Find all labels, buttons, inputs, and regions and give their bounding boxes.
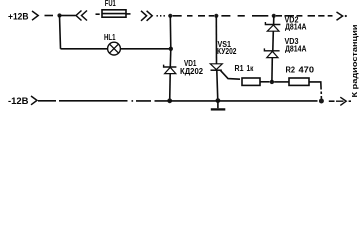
wire dotted <box>157 15 165 17</box>
connector pin +12V <box>32 11 38 20</box>
thyristor VS1 gate <box>221 71 240 80</box>
svg-text:КУ202: КУ202 <box>217 47 237 56</box>
svg-text:1к: 1к <box>247 64 255 73</box>
output arrow -12V to radio <box>336 97 346 105</box>
node C junction <box>169 47 173 51</box>
wire lamp branch right <box>120 48 170 50</box>
wire bottom rail mid <box>155 100 318 102</box>
zener VD2 triangle <box>267 25 279 31</box>
wire lamp branch left <box>61 48 108 50</box>
zener VD3 triangle <box>267 51 278 57</box>
svg-text:470: 470 <box>299 65 315 74</box>
node ground junction <box>216 98 221 103</box>
thyristor VS1 triangle <box>210 64 222 70</box>
diode VD1 triangle <box>165 67 176 73</box>
wire bottom rail left <box>38 100 128 102</box>
connector pin -12V <box>31 96 37 105</box>
fuse FU1 <box>102 10 126 17</box>
wire B down to C <box>169 16 172 49</box>
lamp HL1 <box>108 42 121 55</box>
wire <box>45 15 54 17</box>
wire <box>60 15 76 17</box>
svg-text:КД202: КД202 <box>180 67 204 76</box>
svg-text:R2: R2 <box>286 65 296 74</box>
node A junction <box>57 13 61 17</box>
svg-text:R1: R1 <box>235 64 244 73</box>
wire VD2 up to node E <box>273 16 275 25</box>
wire VD3 up to VD2 <box>272 31 275 51</box>
wire dashed top rail B to D <box>173 15 214 17</box>
thyristor VS1 cathode bar <box>211 69 222 71</box>
resistor R1 <box>242 78 260 85</box>
wire VS1 cathode down to ground node <box>217 70 218 101</box>
wire D down to VS1 <box>215 16 217 64</box>
node H junction <box>319 99 324 104</box>
output arrow +12V to radio <box>337 12 343 20</box>
node E junction (VD2 tap) <box>272 14 276 18</box>
svg-text:-12В: -12В <box>8 96 29 106</box>
svg-text:HL1: HL1 <box>104 33 116 42</box>
diode VD1 cathode bar <box>164 65 177 67</box>
svg-text:К радиостанции: К радиостанции <box>350 24 359 97</box>
wire VD1 down to node F <box>169 74 172 101</box>
svg-text:+12В: +12В <box>8 11 29 21</box>
resistor R2 <box>289 78 309 85</box>
zener VD3 cathode bar <box>264 48 279 50</box>
ground <box>217 101 219 108</box>
wire R2 to node H <box>309 82 321 99</box>
zener VD2 cathode bar <box>265 22 280 25</box>
wire R1 to node G <box>260 81 270 83</box>
wire A down to lamp branch <box>60 16 61 49</box>
node F junction <box>167 98 172 103</box>
node G junction <box>270 80 274 84</box>
wire dashed top rail D to E <box>221 15 268 17</box>
wire G up to VD3 <box>271 58 273 82</box>
wire dashed <box>96 13 100 15</box>
connector pair X1 (double chevron left) <box>76 11 87 21</box>
svg-text:Д814А: Д814А <box>285 45 307 54</box>
wire dash <box>126 13 131 15</box>
wire bottom rail after H <box>329 100 335 102</box>
wire dashed top rail E to output arrow <box>276 15 333 17</box>
node B junction <box>168 14 172 18</box>
node D junction (VS1 anode tap) <box>214 14 218 18</box>
svg-text:FU1: FU1 <box>105 0 116 8</box>
wire C down to VD1 <box>169 49 172 67</box>
connector pair X2 (double chevron right) <box>141 11 152 21</box>
svg-text:Д814А: Д814А <box>285 23 307 32</box>
wire bottom rail dash-dot <box>132 100 152 102</box>
wire G to R2 <box>274 81 289 83</box>
